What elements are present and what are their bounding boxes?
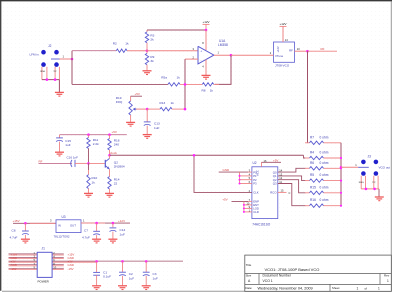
svg-text:IN: IN [58, 224, 61, 228]
svg-text:0 ohm: 0 ohm [320, 161, 329, 165]
resistor R6 0 ohm [305, 167, 310, 169]
svg-text:RF: RF [39, 159, 43, 163]
svg-text:U2: U2 [253, 161, 257, 165]
svg-text:R10: R10 [92, 176, 98, 180]
svg-text:C14: C14 [120, 228, 126, 232]
svg-text:R2: R2 [113, 42, 117, 46]
wire J1 left pin 3 (GND) [9, 257, 38, 259]
svg-text:0 ohm: 0 ohm [320, 185, 329, 189]
svg-text:1uF: 1uF [129, 276, 134, 280]
wire J1 right pin 2 (+15V) [52, 253, 64, 255]
connector J2 (LFM in jack) [41, 50, 46, 55]
svg-text:of: of [365, 286, 368, 290]
wire Q0 to R6 row [278, 168, 306, 172]
ground (J2) [55, 91, 64, 93]
wire U3 out rail [81, 222, 130, 224]
svg-text:R13: R13 [160, 101, 166, 105]
node output [230, 54, 233, 57]
svg-text:C8: C8 [12, 229, 16, 233]
svg-text:R15: R15 [310, 185, 316, 189]
svg-text:C16 1nF: C16 1nF [67, 156, 79, 160]
capacitor C16 1nF [71, 160, 72, 167]
wire RF to C16 [39, 162, 73, 164]
svg-text:+5V: +5V [222, 198, 227, 202]
wire op-amp pin4 to ground [205, 60, 207, 76]
svg-text:1: 1 [387, 279, 389, 283]
svg-text:LFM in: LFM in [30, 53, 40, 57]
svg-text:0.1uF: 0.1uF [103, 275, 111, 279]
svg-text:clock: clock [110, 151, 117, 155]
resistor R15 0 ohm [305, 192, 310, 194]
svg-text:C13: C13 [154, 121, 160, 125]
capacitor C1 0.1uF [95, 260, 98, 263]
resistor R5a 1k (input to inverting node) [72, 83, 168, 85]
ground (C8) [21, 238, 30, 240]
J2 pin 1 stub [51, 58, 60, 60]
wire J2 ground bus [42, 79, 60, 81]
capacitor C13 1uF [146, 109, 148, 122]
wire J1 left pin 5 (+5V) [9, 260, 38, 262]
wire to J2 ground [58, 80, 60, 92]
wire VCO output pin 10 [295, 50, 308, 52]
resistor R3 2k [146, 30, 148, 32]
capacitor C8 4.7uF [24, 223, 26, 230]
wire J3 ground bus [361, 188, 379, 190]
wire vertical node riser [71, 51, 73, 85]
svg-text:VCO 1: VCO 1 [263, 279, 273, 283]
svg-text:+12V: +12V [279, 22, 286, 26]
svg-text:Document Number: Document Number [263, 274, 292, 278]
ground (C3) [142, 285, 151, 287]
svg-text:+5V: +5V [112, 130, 117, 134]
ground (J3) [375, 196, 384, 198]
node J3 feed [340, 166, 343, 169]
node C14 [112, 222, 115, 225]
node A (R2/R3/R9) [146, 49, 149, 52]
svg-text:RF: RF [321, 47, 325, 51]
wire J1 right pin 10 (-15V) [52, 267, 64, 269]
wire output bus [340, 143, 342, 206]
svg-text:2.2k: 2.2k [93, 142, 99, 146]
wire collector [109, 155, 111, 158]
svg-text:Wednesday, November 04, 2009: Wednesday, November 04, 2009 [258, 286, 313, 290]
svg-text:1k: 1k [171, 101, 175, 105]
wire op-amp -in [185, 58, 198, 60]
wire J1 left pin 7 (GND) [9, 264, 38, 266]
wire Q2 to R15 row [278, 180, 306, 193]
wire RCO stub [278, 191, 287, 193]
svg-text:R4: R4 [310, 151, 314, 155]
wire emitter to R14 [109, 169, 111, 176]
svg-text:R5: R5 [310, 173, 314, 177]
capacitor C7 4.7uF [96, 223, 98, 231]
svg-text:+12V: +12V [202, 20, 209, 24]
net label RF (output) [308, 50, 338, 52]
svg-text:+: + [200, 50, 202, 54]
svg-text:240: 240 [114, 142, 119, 146]
svg-text:J2: J2 [48, 44, 52, 48]
capacitor C3 1uF [145, 260, 148, 263]
node clock [108, 154, 111, 157]
svg-text:78L12/TO92: 78L12/TO92 [54, 235, 70, 239]
wire Q1 to R5 row [278, 176, 306, 181]
page border [0, 1, 2, 291]
wire clock to R4 row [304, 155, 306, 158]
ground (C2) [118, 285, 127, 287]
wire J1 right pin 6 (+5V) [52, 260, 183, 262]
wire +12V to op-amp pin8 [205, 30, 207, 50]
resistor R10 1k [88, 163, 90, 170]
wire feedback drop [215, 55, 231, 84]
svg-text:RING: RING [40, 71, 45, 73]
node RF out [306, 50, 309, 53]
svg-text:LM358: LM358 [218, 43, 228, 47]
svg-text:74AC161SO: 74AC161SO [252, 222, 270, 226]
svg-text:POWER: POWER [38, 280, 50, 284]
svg-text:1uF: 1uF [153, 276, 158, 280]
svg-text:VTune: VTune [275, 54, 284, 58]
wire to J3 ground [378, 189, 380, 197]
pot wiper [136, 108, 147, 110]
J2 sleeve/ring stubs [41, 67, 43, 80]
svg-text:CLR: CLR [253, 210, 259, 214]
wire to J3 pin1 [341, 166, 358, 168]
wire inverting node riser [184, 59, 186, 109]
svg-text:JT08-VCO: JT08-VCO [275, 64, 290, 68]
connector J3 VCO out jack [361, 160, 366, 165]
svg-text:GND: GND [223, 168, 231, 172]
op-amp U1A LM358 [198, 46, 214, 64]
IC U2 74AC161 [252, 167, 278, 219]
node C8 [24, 222, 27, 225]
svg-text:1k: 1k [125, 42, 129, 46]
wire P0 tie [219, 171, 248, 173]
resistor R16 240 [108, 133, 111, 136]
svg-text:R5a: R5a [161, 76, 167, 80]
resistor R16 0 ohm [305, 205, 310, 207]
svg-text:J3: J3 [368, 154, 372, 158]
svg-text:Title: Title [246, 263, 252, 267]
resistor R7 0 ohm [305, 142, 310, 144]
svg-text:3k: 3k [150, 59, 154, 63]
wire J1 right pin 8 (GND) [52, 264, 64, 266]
node base [87, 162, 90, 165]
node wiper [146, 108, 149, 111]
svg-text:VCO1: JT08-100P Based VCO: VCO1: JT08-100P Based VCO [265, 267, 320, 272]
resistor R9 3k [146, 51, 148, 54]
svg-text:Date:: Date: [245, 286, 252, 290]
svg-text:U3: U3 [62, 215, 66, 219]
wire clock line [110, 154, 304, 156]
wire op-amp out to VTune [231, 54, 274, 56]
svg-text:FRQ: FRQ [116, 100, 123, 104]
svg-text:R8: R8 [202, 89, 206, 93]
svg-text:+12V: +12V [118, 219, 125, 223]
svg-text:4.7uF: 4.7uF [82, 236, 90, 240]
svg-text:22: 22 [114, 181, 118, 185]
svg-text:R16: R16 [310, 198, 316, 202]
U2 VCC pin 16 to +5V [261, 162, 263, 167]
svg-text:R7: R7 [310, 135, 314, 139]
svg-text:1k: 1k [177, 76, 181, 80]
svg-text:Q3: Q3 [273, 182, 277, 186]
wire clock drop to CLK [194, 155, 252, 192]
wire to R2 [72, 50, 116, 52]
svg-text:C7: C7 [84, 229, 88, 233]
transistor Q2 2N3904 [104, 160, 106, 168]
wire +12V rail to R3 [147, 29, 206, 31]
svg-text:0 ohm: 0 ohm [320, 173, 329, 177]
node inverting [184, 83, 187, 86]
ground (C7) [92, 238, 101, 240]
wire +12V to VCO pin 14 [282, 26, 284, 42]
svg-text:4.7uF: 4.7uF [10, 236, 18, 240]
svg-text:2k: 2k [150, 37, 154, 41]
svg-text:2N3904: 2N3904 [114, 164, 125, 168]
svg-text:RING: RING [359, 182, 364, 184]
svg-text:R6: R6 [310, 161, 314, 165]
svg-text:-15V: -15V [68, 267, 74, 271]
svg-text:RF: RF [289, 48, 293, 52]
svg-text:0 ohm: 0 ohm [320, 151, 329, 155]
oscillator module JT08 VCO [274, 42, 295, 62]
capacitor C2 1uF [121, 260, 124, 263]
svg-text:CLK: CLK [253, 191, 259, 195]
svg-text:1k: 1k [92, 181, 96, 185]
resistor R8 1k (feedback) [202, 83, 213, 86]
svg-text:1k: 1k [210, 89, 214, 93]
node C7 [95, 222, 98, 225]
wire RF drop to R7 [307, 51, 309, 143]
wire J1 left pin 9 (-15V) [9, 267, 38, 269]
wire Q3 to R16 row [278, 184, 306, 206]
svg-text:1uF: 1uF [65, 143, 70, 147]
regulator U3 78L12 [56, 220, 81, 233]
svg-text:OUT: OUT [70, 224, 76, 228]
ground (R9) [143, 70, 152, 72]
svg-text:+15V: +15V [13, 219, 20, 223]
power rail +5V [60, 134, 127, 136]
ground (R10) [84, 192, 93, 194]
resistor R5 0 ohm [305, 180, 310, 182]
resistor R14 22 [108, 177, 111, 190]
ground (R14) [105, 192, 114, 194]
svg-text:1uF: 1uF [154, 126, 159, 130]
svg-text:1: 1 [357, 286, 359, 290]
svg-text:1uF: 1uF [120, 232, 125, 236]
resistor R4 0 ohm [305, 157, 310, 159]
wire to Q2 base [89, 162, 105, 164]
svg-text:P3: P3 [253, 182, 257, 186]
ground (C1) [92, 285, 101, 287]
power +5V (pot) [131, 95, 142, 97]
svg-text:+5V: +5V [135, 92, 140, 96]
wire node A to op-amp +in [147, 50, 198, 52]
svg-text:0 ohm: 0 ohm [320, 135, 329, 139]
svg-text:J1: J1 [42, 246, 46, 250]
wire P input bus [239, 172, 241, 183]
ground (C14) [108, 238, 117, 240]
wire J2 pin1 to node [60, 58, 73, 60]
svg-text:Sheet: Sheet [332, 286, 340, 290]
J3 sleeve/ring stubs [360, 176, 362, 189]
svg-text:Size: Size [246, 274, 252, 278]
svg-text:0 ohm: 0 ohm [320, 198, 329, 202]
ground (op-amp) [202, 74, 211, 76]
wire J1 left pin 1 (+15V) [9, 253, 38, 255]
svg-text:+12V: +12V [276, 46, 280, 52]
title block [245, 255, 391, 291]
node at J2 output [71, 58, 74, 61]
ground (C13) [143, 134, 152, 136]
svg-text:1: 1 [378, 286, 380, 290]
capacitor C14 1uF [112, 223, 114, 227]
wire op-amp output [214, 54, 231, 56]
capacitor C15 1uF [59, 135, 61, 138]
svg-text:C: C [289, 191, 291, 195]
svg-text:RCO: RCO [270, 191, 277, 195]
wire +15V to U3 [13, 222, 56, 224]
resistor R13 1k [147, 108, 160, 110]
svg-text:+5V: +5V [273, 158, 278, 162]
ground (C15) [55, 151, 64, 153]
ground (pot) [126, 121, 135, 123]
wire enable bus [243, 201, 245, 212]
resistor R11 2.2k [87, 133, 90, 136]
svg-text:VCO out: VCO out [379, 165, 391, 169]
resistor R2 1k [116, 49, 127, 52]
wire J1 right pin 4 (GND) [52, 257, 64, 259]
svg-text:-15V: -15V [11, 267, 17, 271]
svg-text:Rev: Rev [384, 274, 390, 278]
